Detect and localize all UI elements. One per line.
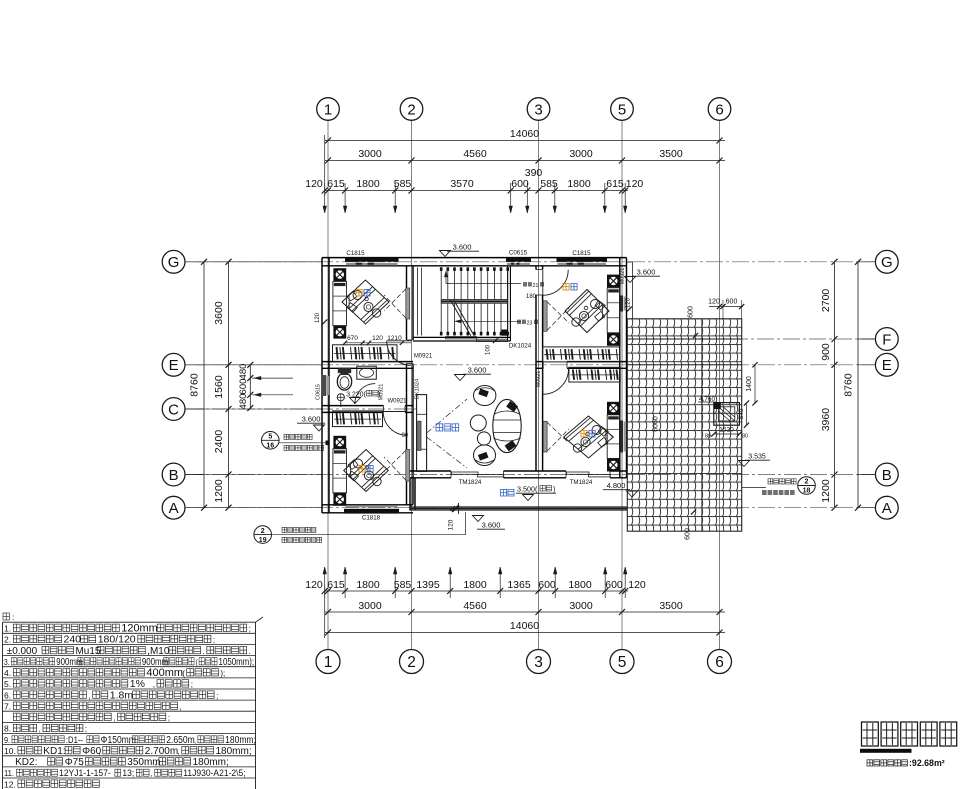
svg-text:3000: 3000: [358, 148, 382, 160]
svg-text:,: ,: [39, 725, 41, 734]
svg-text:1: 1: [324, 101, 332, 118]
note line 6: [4, 678, 193, 690]
svg-text:M0921: M0921: [414, 354, 433, 360]
svg-text:12.: 12.: [4, 779, 16, 789]
wardrobe NE bedroom: [607, 288, 620, 333]
exterior wall right: [619, 258, 621, 478]
washbasin: [357, 366, 377, 379]
stair bottom rail: [413, 336, 510, 338]
wardrobe SW bedroom: [333, 449, 347, 493]
roof vertical dim line: [701, 319, 703, 531]
sliding door DK1024 stair hall: [446, 337, 477, 339]
grid axis row F (horizontal): [627, 338, 874, 340]
svg-text:,: ,: [88, 691, 90, 700]
svg-text:585: 585: [394, 579, 412, 591]
svg-text:120: 120: [448, 519, 455, 530]
svg-text:23: 23: [527, 320, 533, 326]
toilet: [338, 368, 351, 374]
svg-text:C0615: C0615: [509, 250, 528, 257]
column symbol 6: [607, 333, 620, 346]
grid axis row C (horizontal): [186, 408, 420, 410]
bottom grid bubble 5: [610, 650, 634, 674]
svg-text:B: B: [882, 467, 892, 484]
sight bar SE bedroom: [543, 421, 547, 452]
svg-text:2: 2: [805, 479, 809, 486]
svg-text:3000: 3000: [358, 600, 382, 612]
exterior wall left: [321, 258, 323, 513]
svg-text:11.: 11.: [4, 769, 14, 778]
svg-text:585: 585: [540, 178, 558, 190]
coffee table living room: [470, 415, 486, 431]
window C0615 left wall (bathroom): [322, 375, 326, 396]
svg-text:120: 120: [626, 297, 632, 308]
svg-text:7.: 7.: [4, 701, 11, 711]
column symbol 5: [607, 275, 620, 288]
svg-text:B: B: [169, 467, 179, 484]
bottom dimension line total 14060: [325, 632, 725, 634]
interior wall row E left: [322, 361, 413, 363]
grid axis line 6 (vertical): [719, 121, 721, 650]
svg-text:120: 120: [626, 178, 644, 190]
svg-text:3.600: 3.600: [637, 268, 656, 277]
note line 12: [4, 746, 252, 757]
svg-text:1%: 1%: [130, 678, 145, 690]
bottom dimension witness lines: [324, 567, 326, 598]
door NE bedroom swing: [543, 270, 568, 295]
svg-text:1: 1: [324, 654, 333, 671]
svg-text:615: 615: [327, 579, 345, 591]
window C1815 top-right: [557, 257, 608, 261]
stair up arrow: [446, 283, 521, 285]
title: second floor plan: [862, 722, 879, 746]
sight bar SW bedroom: [406, 450, 410, 482]
right dimension line 8760: [857, 262, 859, 508]
interior wall row C with door gap: [322, 405, 384, 407]
svg-text:2: 2: [407, 101, 415, 118]
column symbol 3: [333, 436, 346, 449]
svg-text:600: 600: [685, 528, 692, 540]
top grid bubble 3: [527, 98, 550, 121]
room label bedroom NE: [563, 283, 569, 290]
note line 15 (cut off): [4, 779, 99, 789]
closet SW bedroom: [333, 411, 383, 427]
svg-text:F: F: [882, 331, 891, 348]
svg-text:640: 640: [738, 408, 745, 419]
svg-text:120: 120: [305, 579, 323, 591]
bottom dimension line minors: [325, 590, 628, 592]
left dimension line 8760: [203, 262, 205, 508]
svg-text:5: 5: [268, 434, 272, 441]
svg-text:8760: 8760: [843, 373, 855, 397]
svg-text:10.: 10.: [4, 746, 16, 756]
top grid bubble 5: [611, 98, 634, 121]
top dimension line total 14060: [325, 140, 725, 142]
grid axis row A (horizontal): [186, 507, 874, 509]
svg-text:1395: 1395: [416, 579, 440, 591]
top grid bubble 6: [708, 98, 731, 121]
left grid bubble G: [162, 250, 185, 273]
svg-text:A: A: [169, 500, 179, 517]
grid axis line 5 (vertical): [621, 121, 623, 650]
floor drain: [337, 394, 344, 401]
svg-text:3570: 3570: [450, 178, 474, 190]
left grid bubble E: [162, 353, 185, 376]
svg-text:6060: 6060: [653, 416, 660, 432]
room label bedroom SE: [581, 430, 587, 437]
svg-text:G: G: [881, 254, 893, 271]
svg-text:16: 16: [266, 443, 274, 450]
svg-text:8.: 8.: [4, 724, 11, 734]
svg-text:600: 600: [688, 306, 695, 318]
svg-text:1800: 1800: [356, 579, 380, 591]
door M0921 hall swing: [387, 341, 412, 366]
sofa oval living room: [493, 399, 521, 452]
svg-text:,: ,: [129, 735, 131, 745]
svg-text:TM1824: TM1824: [570, 479, 593, 486]
armchair north living room: [474, 386, 496, 406]
svg-text:1800: 1800: [567, 178, 591, 190]
svg-text:2.700m: 2.700m: [145, 746, 178, 757]
wardrobe NW bedroom: [333, 281, 347, 325]
svg-text:,: ,: [99, 747, 101, 756]
svg-text:120: 120: [628, 579, 646, 591]
svg-text:2400: 2400: [213, 430, 225, 454]
svg-text:): ): [553, 485, 555, 494]
room label balcony (blue): [501, 489, 515, 496]
svg-text:900: 900: [820, 343, 832, 361]
note line 5: [4, 667, 225, 679]
svg-text:1.8m: 1.8m: [110, 689, 134, 701]
room label bedroom NW: [356, 289, 362, 296]
svg-text:585: 585: [394, 178, 412, 190]
left detail dimension 480/600/480: [249, 365, 251, 409]
right grid bubble F: [875, 328, 898, 351]
svg-text:1400: 1400: [746, 376, 753, 392]
stair mid handrail: [441, 300, 508, 304]
column symbol 7: [607, 402, 620, 415]
top dimension line majors 3000/4560/3000/3500: [325, 160, 725, 162]
svg-text:3000: 3000: [569, 600, 593, 612]
note line 14: [4, 768, 246, 779]
svg-text:120: 120: [372, 335, 383, 342]
window C0615 top-middle: [506, 257, 531, 261]
right grid bubble G: [875, 250, 898, 273]
grid axis line 1 (vertical): [327, 121, 329, 650]
grid axis row G (horizontal): [186, 261, 874, 263]
svg-text:3500: 3500: [659, 148, 683, 160]
svg-text:3.600: 3.600: [468, 366, 487, 375]
chimney dim 1400: [754, 365, 756, 403]
svg-text:;: ;: [213, 636, 215, 645]
left dimension witness lines: [196, 261, 322, 263]
svg-text:2: 2: [261, 528, 265, 535]
svg-text:;: ;: [249, 624, 251, 633]
notes block title: [3, 613, 9, 620]
svg-text:C1818: C1818: [362, 515, 381, 522]
armchair south living room: [474, 445, 496, 466]
svg-text:8760: 8760: [189, 373, 201, 397]
notes block frame: [2, 622, 4, 789]
svg-text:(: (: [182, 669, 185, 678]
svg-text:14060: 14060: [510, 128, 539, 140]
svg-text:19: 19: [259, 537, 267, 544]
svg-text:9.: 9.: [4, 735, 10, 745]
svg-text:3: 3: [534, 654, 543, 671]
svg-text:;: ;: [85, 725, 87, 734]
left grid bubble A: [162, 496, 185, 519]
svg-text:,: ,: [180, 702, 182, 711]
stair break line: [450, 299, 471, 335]
svg-text:1050mm);: 1050mm);: [219, 656, 255, 667]
svg-text:480: 480: [238, 394, 249, 410]
interior wall W1 vertical with door gap: [406, 266, 408, 340]
svg-text:180mm;: 180mm;: [216, 746, 252, 757]
bottom grid bubble 6: [708, 650, 732, 674]
svg-text:M0921: M0921: [536, 371, 542, 387]
svg-text:,: ,: [155, 758, 157, 767]
svg-text:180mm;: 180mm;: [193, 757, 229, 768]
top grid bubble 2: [400, 98, 423, 121]
svg-text:6: 6: [715, 101, 723, 118]
window C1815 top-left: [345, 257, 399, 261]
svg-text:1.: 1.: [4, 623, 11, 633]
TV cabinet living room: [417, 395, 427, 472]
note line 2: [4, 634, 215, 646]
svg-text:4560: 4560: [463, 148, 487, 160]
title area note: [867, 760, 907, 766]
stair landing boundary: [417, 268, 419, 336]
bed SE bedroom: [564, 416, 614, 458]
note line 7: [4, 689, 218, 701]
room label living room (blue): [436, 424, 459, 431]
svg-text:390: 390: [525, 167, 543, 179]
grid axis row B (horizontal): [186, 474, 874, 476]
svg-text:1200: 1200: [820, 479, 832, 503]
svg-text:5: 5: [618, 101, 626, 118]
window C1818 bottom: [344, 509, 399, 514]
svg-text:,: ,: [113, 714, 115, 723]
tiled roof over terrace: [627, 319, 741, 531]
balcony railing: [410, 506, 627, 508]
stair bottom corner block: [502, 330, 508, 336]
svg-text:1560: 1560: [213, 375, 225, 399]
svg-text:3600: 3600: [213, 301, 225, 325]
svg-text:120: 120: [708, 299, 720, 306]
sight bar NW bedroom: [406, 288, 410, 319]
window right wall lower: [620, 421, 623, 453]
bottom grid bubble 2: [400, 650, 424, 674]
note line 1: [4, 622, 251, 634]
roof ridge line at row E: [627, 364, 741, 366]
note line 4: [4, 656, 254, 667]
svg-text:3.: 3.: [4, 657, 10, 667]
svg-text:A: A: [882, 500, 892, 517]
svg-text:600: 600: [605, 579, 623, 591]
svg-text:3.600: 3.600: [482, 521, 501, 530]
svg-text:1365: 1365: [507, 579, 531, 591]
svg-text:;: ;: [216, 691, 218, 700]
stair treads upper flight: [440, 268, 442, 300]
svg-text:2: 2: [407, 654, 416, 671]
svg-text:120: 120: [305, 178, 323, 190]
closet NE bedroom: [543, 347, 621, 362]
svg-text:C0615: C0615: [316, 384, 322, 400]
svg-text:,: ,: [81, 758, 83, 767]
grid axis row E (horizontal): [186, 364, 874, 366]
svg-text::D1--: :D1--: [66, 734, 83, 745]
TV sight lines: [427, 399, 467, 433]
left grid bubble C: [162, 398, 185, 421]
exterior wall row B with balcony door gaps: [407, 470, 452, 472]
svg-text:3.500(: 3.500(: [517, 485, 538, 494]
stair treads lower flight: [440, 304, 442, 336]
door SE bedroom swing: [543, 369, 569, 395]
svg-text:3.600: 3.600: [302, 415, 321, 424]
svg-text:1800: 1800: [463, 579, 487, 591]
svg-text:4.: 4.: [4, 668, 11, 678]
svg-text:180mm;: 180mm;: [225, 734, 256, 745]
svg-text:1800: 1800: [356, 178, 380, 190]
svg-text:1200: 1200: [213, 479, 225, 503]
svg-text:13;: 13;: [122, 768, 134, 779]
svg-text:5: 5: [618, 654, 627, 671]
svg-text:1210: 1210: [387, 335, 402, 342]
column symbol 1: [333, 268, 346, 281]
bed NE bedroom: [565, 290, 609, 333]
wardrobe SE bedroom: [607, 415, 620, 459]
svg-text:100: 100: [486, 344, 492, 355]
column symbol 8: [607, 459, 620, 472]
svg-text:600: 600: [238, 379, 249, 395]
stair up label: [523, 282, 532, 286]
exterior wall bottom of SW bedroom: [322, 504, 413, 506]
svg-text:18: 18: [803, 488, 811, 495]
note line 9: [4, 713, 170, 723]
right grid bubble A: [875, 496, 898, 519]
column symbol 2: [333, 326, 346, 339]
svg-text:M0921: M0921: [379, 384, 385, 400]
grid axis line 3 (vertical): [538, 121, 540, 650]
exterior wall top: [322, 257, 627, 259]
grid axis line 2 (vertical): [411, 121, 413, 650]
svg-text:1520: 1520: [719, 427, 734, 434]
svg-text:KD1:: KD1:: [43, 746, 65, 757]
svg-text:615: 615: [606, 178, 624, 190]
note line 8: [4, 701, 182, 711]
svg-text:615: 615: [327, 178, 345, 190]
svg-text:120: 120: [315, 312, 321, 323]
callout 2/19 with note: [254, 526, 272, 544]
top dimension line minors: [325, 190, 628, 192]
bed SW bedroom: [344, 450, 389, 492]
interior wall row E right with door gap: [536, 361, 543, 363]
right grid bubble B: [875, 463, 898, 486]
svg-text:670: 670: [347, 335, 358, 342]
svg-text:4560: 4560: [463, 600, 487, 612]
svg-text:3500: 3500: [659, 600, 683, 612]
svg-text:90: 90: [401, 433, 408, 439]
TV set: [418, 421, 421, 450]
svg-text:;: ;: [168, 714, 170, 723]
right dimension line segments 2700/900/3960/1200: [834, 262, 836, 508]
svg-text:4.800: 4.800: [607, 481, 626, 490]
svg-text:600: 600: [726, 299, 738, 306]
roof top dimension 120/600: [709, 306, 743, 308]
svg-text:W0921: W0921: [387, 399, 407, 405]
svg-text:TM1824: TM1824: [459, 479, 482, 486]
column symbol 4: [333, 493, 346, 506]
stair down arrow: [455, 320, 521, 322]
svg-text:3.535: 3.535: [748, 454, 766, 461]
svg-text:80: 80: [742, 434, 748, 440]
svg-text:C1815: C1815: [346, 250, 365, 257]
top dimension witness lines: [324, 183, 326, 213]
svg-text::: :: [12, 613, 14, 622]
svg-text:5.: 5.: [4, 679, 11, 689]
svg-text::92.68m²: :92.68m²: [909, 758, 945, 768]
window right wall upper: [620, 296, 623, 312]
bed NW bedroom: [342, 280, 389, 324]
svg-text:180/120: 180/120: [98, 634, 136, 646]
sight bar NE bedroom: [543, 301, 547, 332]
bottom dimension line majors: [325, 611, 725, 613]
note line 10: [4, 724, 87, 734]
svg-text:C1815: C1815: [572, 250, 591, 257]
note line 11: [4, 734, 256, 745]
svg-text:E: E: [169, 357, 179, 374]
note line 3: [4, 646, 251, 657]
svg-text:400mm: 400mm: [146, 667, 183, 679]
stair down label: [517, 320, 526, 324]
bottom grid bubble 1: [316, 650, 340, 674]
svg-text:2700: 2700: [820, 289, 832, 313]
svg-text:DK1024: DK1024: [415, 379, 421, 399]
svg-text:80: 80: [705, 434, 711, 440]
closet NW bedroom: [333, 345, 398, 362]
eave wall stub right of house: [627, 261, 633, 263]
stair right stringer wall: [507, 266, 509, 341]
svg-text:3: 3: [534, 101, 542, 118]
door W0921 bathroom swing: [355, 384, 375, 404]
room label bedroom SW: [359, 465, 365, 472]
svg-text:.: .: [249, 647, 251, 656]
chimney dim 1520: [714, 433, 740, 435]
svg-text:,: ,: [194, 735, 196, 745]
svg-text:2.: 2.: [4, 635, 11, 645]
balcony left wall: [409, 478, 411, 511]
svg-text:600: 600: [511, 178, 529, 190]
svg-text:6: 6: [715, 654, 724, 671]
svg-text:;: ;: [191, 680, 193, 689]
right grid bubble E: [875, 353, 898, 376]
svg-text:600: 600: [538, 579, 556, 591]
top grid bubble 1: [317, 98, 340, 121]
chimney: [714, 403, 740, 426]
svg-text:(: (: [196, 657, 199, 667]
svg-text:240: 240: [64, 634, 82, 646]
svg-text:G: G: [168, 254, 180, 271]
callout 2/18 with note: [768, 479, 796, 484]
chimney dim 640: [746, 403, 748, 425]
note line 13: [4, 757, 229, 768]
svg-text:3.600: 3.600: [453, 243, 472, 252]
svg-text:);: );: [220, 669, 225, 678]
callout 5/16 with note: [262, 432, 280, 450]
closet SE bedroom: [569, 367, 620, 382]
svg-text:,: ,: [151, 769, 153, 778]
svg-text:480: 480: [238, 364, 249, 380]
svg-text:KD2:: KD2:: [4, 757, 37, 768]
